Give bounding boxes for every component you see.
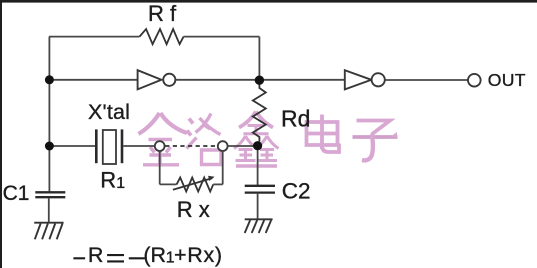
ground below C1 (34, 223, 63, 240)
svg-text:C2: C2 (282, 179, 311, 204)
wire: C2 to ground (257, 194, 259, 219)
wire: top feedback rail right of Rf (184, 36, 260, 38)
wire: Rx loop bottom left (160, 183, 177, 185)
wire: left vertical bus (48, 37, 50, 192)
node B circle (218, 141, 228, 151)
wire: top feedback rail left of Rf (49, 36, 140, 38)
watermark 子 (353, 121, 398, 161)
watermark 金 (139, 113, 188, 165)
capacitor C1 top plate (35, 191, 65, 193)
formula -R = -(R1+Rx) (73, 255, 144, 261)
node: junction dot Rd / C2 / node B (253, 141, 262, 150)
resistor Rx wiper arrow line (173, 178, 212, 190)
wire: dashed negative-resistance link (165, 145, 218, 147)
node: junction dot left bus / U1 input (45, 75, 54, 84)
op-amp U1 inverter triangle (138, 70, 162, 89)
resistor Rd zigzag (253, 85, 266, 142)
crystal X'tal left plate (95, 129, 98, 163)
svg-text:X'tal: X'tal (88, 100, 130, 124)
resistor Rx wiper arrowhead (208, 176, 215, 181)
node: junction dot left bus / crystal row (45, 142, 54, 151)
node A circle (155, 141, 165, 151)
crystal X'tal body rectangle (103, 130, 116, 164)
watermark 电 (307, 115, 340, 153)
watermark 洛 (187, 114, 222, 165)
wire: node B stub down (222, 151, 224, 184)
top border (0, 0, 537, 3)
wire: crystal to node circle A (123, 145, 155, 147)
node: junction dot U1 output / Rf / Rd (255, 76, 264, 85)
wire: node B to Rd/C2 junction (228, 145, 254, 147)
wire: U1 output to U2 input (175, 79, 344, 81)
op-amp U1 inverter bubble (163, 74, 175, 86)
wire: inverter U1 input (49, 79, 137, 81)
resistor Rx zigzag (177, 178, 214, 192)
op-amp U2 inverter triangle (345, 70, 372, 89)
left border (0, 0, 2, 268)
wire: U2 output to OUT terminal (385, 79, 468, 81)
svg-text:Rd: Rd (281, 105, 310, 131)
resistor Rf (140, 29, 184, 44)
capacitor C2 top plate (245, 185, 275, 187)
node OUT terminal circle (468, 74, 481, 87)
crystal X'tal right plate (121, 129, 124, 163)
svg-text:R x: R x (177, 197, 210, 222)
svg-text:OUT: OUT (488, 70, 526, 90)
svg-text:R1: R1 (100, 167, 125, 192)
op-amp U2 inverter bubble (372, 73, 385, 86)
capacitor C1 bottom plate (35, 196, 65, 198)
wire: crystal row from left bus (49, 145, 95, 147)
wire: right vertical from top rail to inverter output node (258, 37, 260, 80)
svg-text:C1: C1 (3, 182, 30, 205)
capacitor C2 bottom plate (245, 191, 275, 193)
wire: Rx loop bottom right (213, 183, 222, 185)
watermark 鑫 (234, 112, 279, 167)
wire: node A stub down (159, 151, 161, 184)
wire: C1 to ground (48, 198, 50, 222)
ground below C2 (245, 219, 273, 233)
svg-text:R f: R f (148, 1, 177, 26)
wire: junction to C2 (257, 150, 259, 185)
